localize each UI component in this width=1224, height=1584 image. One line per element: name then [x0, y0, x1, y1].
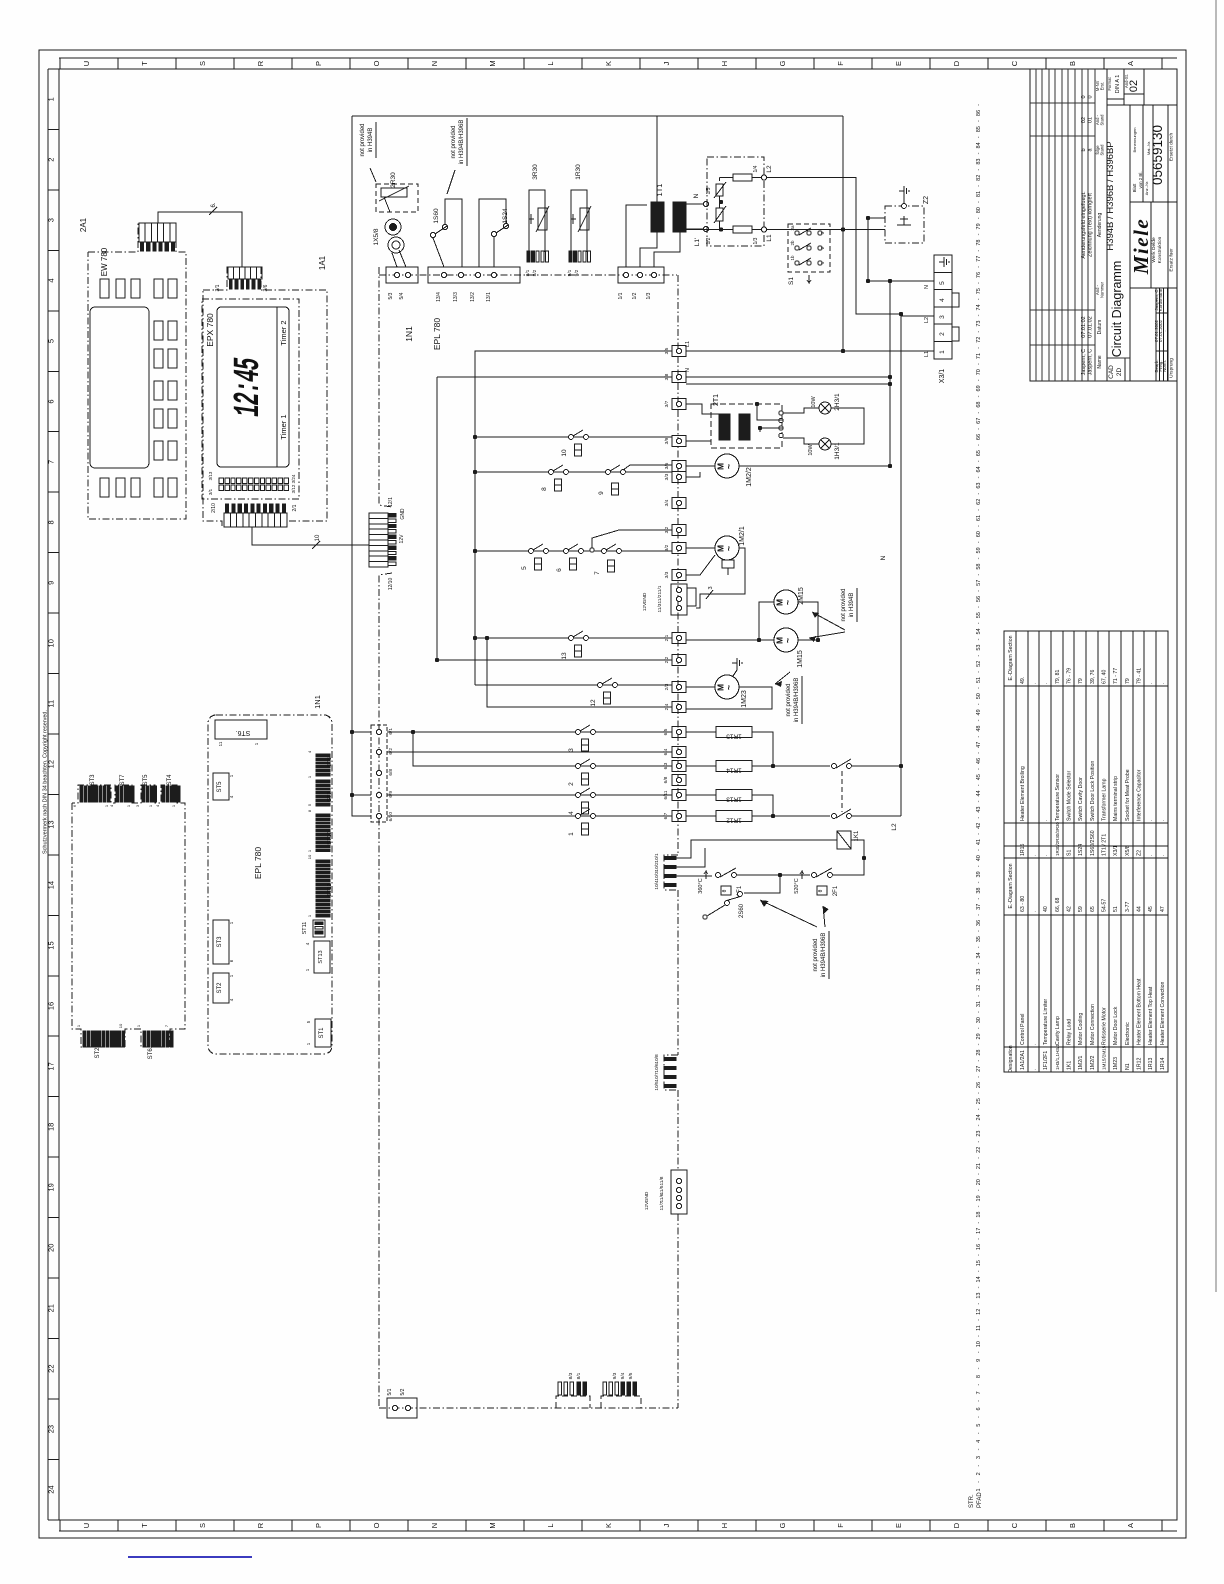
svg-text:12: 12: [976, 1309, 982, 1315]
sensor 1R30 temperature: [571, 164, 591, 252]
svg-text:~: ~: [783, 600, 793, 605]
svg-text:1S24: 1S24: [1078, 844, 1084, 856]
svg-text:55: 55: [976, 612, 982, 618]
svg-text:Control Panel: Control Panel: [1020, 1014, 1026, 1045]
terminal block 5/1 5/2: [387, 1388, 417, 1418]
terminal chain 2/x: [664, 633, 686, 713]
svg-text:Stand: Stand: [1100, 114, 1105, 126]
wire 1/3 to 1T1 secondary: [654, 232, 680, 267]
svg-text:N: N: [693, 193, 700, 198]
svg-text:9/2: 9/2: [574, 269, 580, 276]
wire slash mark /6: [209, 202, 217, 215]
svg-text:Heater Element Broiling: Heater Element Broiling: [1020, 766, 1026, 821]
svg-text:H394B / H396B / H396BP: H394B / H396B / H396BP: [1105, 141, 1116, 250]
svg-text:-: -: [976, 266, 982, 268]
svg-text:70: 70: [976, 369, 982, 375]
svg-text:1R14: 1R14: [726, 767, 742, 774]
svg-text:10/3: 10/3: [654, 871, 660, 881]
svg-text:52: 52: [976, 661, 982, 667]
svg-text:-: -: [976, 914, 982, 916]
svg-text:-: -: [976, 1092, 982, 1094]
svg-text:5: 5: [521, 566, 528, 570]
svg-text:L: L: [546, 61, 555, 65]
main board bottom edge: [379, 1407, 678, 1409]
svg-text:L1: L1: [924, 351, 930, 357]
svg-text:2A1: 2A1: [79, 217, 88, 232]
svg-text:Rotisserie Motor: Rotisserie Motor: [1102, 1007, 1108, 1045]
svg-text:12V: 12V: [399, 534, 405, 544]
svg-text:3: 3: [708, 586, 714, 589]
svg-text:11/6: 11/6: [659, 1193, 665, 1202]
svg-text:H: H: [720, 1523, 729, 1528]
title block format strip: [1107, 69, 1177, 381]
connector ST1 box: [306, 1019, 331, 1047]
svg-text:-: -: [976, 233, 982, 235]
fuse to L2: [723, 165, 773, 181]
svg-text:-: -: [976, 1076, 982, 1078]
svg-text:ST11: ST11: [302, 922, 308, 935]
svg-text:.: .: [1148, 683, 1154, 684]
svg-text:3/13: 3/13: [208, 471, 213, 480]
svg-text:1N1: 1N1: [313, 695, 322, 709]
svg-text:11/1: 11/1: [657, 585, 663, 594]
svg-text:1K1: 1K1: [1067, 1061, 1073, 1070]
switch 1S24 cavity door: [479, 199, 509, 267]
svg-text:~: ~: [783, 638, 793, 643]
connector ST13 box: [305, 941, 330, 973]
svg-text:-: -: [976, 865, 982, 867]
motor 1M2/2 cooling: [715, 454, 753, 487]
svg-text:.: .: [1032, 855, 1038, 856]
svg-text:-: -: [976, 638, 982, 640]
svg-text:59: 59: [1078, 906, 1084, 912]
svg-text:Cavity Lamp: Cavity Lamp: [1055, 1016, 1061, 1045]
svg-text:in H394B: in H394B: [849, 593, 855, 618]
svg-text:~: ~: [724, 546, 734, 551]
svg-text:-: -: [976, 1303, 982, 1305]
relay contact 1K1 upper: [832, 759, 904, 768]
main board right edge: [677, 275, 679, 1408]
board comb 9/1 9/2: [567, 251, 590, 276]
svg-text:35: 35: [976, 936, 982, 942]
svg-text:-: -: [976, 314, 982, 316]
svg-text:2/3: 2/3: [664, 683, 670, 690]
svg-text:24: 24: [47, 1485, 56, 1493]
bottom comb 8/x: [556, 1372, 590, 1408]
title block Mat number: [1146, 125, 1165, 185]
svg-text:49: 49: [976, 709, 982, 715]
svg-text:41: 41: [976, 839, 982, 845]
svg-text:-: -: [976, 1060, 982, 1062]
svg-text:01: 01: [1088, 117, 1094, 123]
svg-text:-: -: [976, 1270, 982, 1272]
motor 1M23 door lock: [715, 675, 748, 708]
comb ST5b: [135, 774, 156, 807]
node L2 join: [899, 312, 903, 316]
svg-text:1R12: 1R12: [726, 817, 742, 824]
svg-text:10/5: 10/5: [654, 1081, 660, 1091]
svg-text:.: .: [1160, 683, 1166, 684]
svg-text:40: 40: [1043, 906, 1049, 912]
svg-text:.: .: [1043, 820, 1049, 821]
svg-text:1A1/2A1: 1A1/2A1: [1020, 1050, 1026, 1070]
svg-text:-: -: [976, 525, 982, 527]
svg-text:4: 4: [568, 811, 575, 815]
svg-text:1R14: 1R14: [1160, 1057, 1166, 1070]
svg-text:54-57: 54-57: [1102, 899, 1108, 912]
svg-text:-: -: [976, 768, 982, 770]
svg-text:9/1: 9/1: [567, 269, 573, 276]
svg-text:12V: 12V: [644, 1201, 650, 1210]
svg-text:3/7: 3/7: [664, 400, 670, 407]
svg-text:not provided: not provided: [360, 123, 366, 156]
svg-text:62: 62: [976, 499, 982, 505]
svg-text:47: 47: [1160, 906, 1166, 912]
svg-text:2: 2: [939, 332, 946, 336]
mains terminal strip X3/1: [924, 255, 959, 383]
node N to down: [888, 279, 892, 283]
svg-text:Aenderung: Aenderung: [1097, 213, 1103, 238]
svg-text:2: 2: [47, 158, 56, 162]
svg-text:.: .: [1043, 855, 1049, 856]
wire 3/2 to 1M2/1: [686, 547, 715, 549]
svg-text:21: 21: [976, 1163, 982, 1169]
svg-text:6/8: 6/8: [663, 776, 669, 783]
svg-text:29: 29: [976, 1033, 982, 1039]
svg-text:37: 37: [976, 904, 982, 910]
svg-text:6/1: 6/1: [388, 728, 394, 735]
svg-text:-: -: [976, 444, 982, 446]
svg-text:-: -: [976, 476, 982, 478]
svg-text:Timer 2: Timer 2: [279, 320, 288, 345]
svg-text:J: J: [662, 61, 671, 65]
display separator: [276, 307, 278, 467]
svg-text:.: .: [1032, 683, 1038, 684]
svg-text:1T1: 1T1: [655, 184, 664, 197]
wire X3/1 pin5 N left: [868, 280, 934, 282]
title block dividers bottom part: [1130, 105, 1177, 381]
svg-text:19: 19: [976, 1195, 982, 1201]
svg-text:-: -: [976, 849, 982, 851]
svg-text:STR.: STR.: [969, 1494, 975, 1508]
svg-text:~: ~: [724, 685, 734, 690]
svg-text:Miele: Miele: [1129, 218, 1153, 275]
svg-text:GND: GND: [644, 1191, 650, 1202]
svg-text:-: -: [976, 185, 982, 187]
svg-text:Stand: Stand: [1100, 144, 1105, 156]
svg-text:Heater Element Convection: Heater Element Convection: [1160, 981, 1166, 1045]
terminal block 1/1 1/2 1/3: [618, 267, 664, 299]
svg-text:79 - 41: 79 - 41: [1137, 668, 1143, 684]
svg-text:1T1 / 2T1: 1T1 / 2T1: [1102, 834, 1108, 856]
svg-text:-: -: [976, 136, 982, 138]
svg-text:1R15: 1R15: [1020, 843, 1026, 856]
svg-text:Designation: Designation: [1008, 1045, 1014, 1073]
svg-text:-: -: [976, 509, 982, 511]
svg-text:Interference Capacitor: Interference Capacitor: [1137, 769, 1143, 821]
svg-text:9: 9: [976, 1359, 982, 1362]
svg-text:N1: N1: [1125, 1063, 1131, 1070]
transformer 2T1: [711, 394, 783, 448]
svg-text:Jaspern, C: Jaspern, C: [1088, 349, 1094, 376]
svg-text:G: G: [778, 1522, 787, 1528]
svg-text:CAD: CAD: [1108, 365, 1115, 379]
wire rotisserie loop: [686, 602, 820, 642]
svg-text:EW 780: EW 780: [100, 247, 109, 276]
svg-text:Jaspern, C: Jaspern, C: [1081, 349, 1087, 376]
svg-text:34: 34: [976, 952, 982, 958]
svg-text:M: M: [488, 1522, 497, 1528]
svg-text:-: -: [976, 1319, 982, 1321]
svg-text:1M23: 1M23: [741, 690, 748, 708]
svg-text:44: 44: [976, 790, 982, 796]
svg-text:3/5: 3/5: [664, 462, 670, 469]
svg-text:-: -: [976, 1222, 982, 1224]
svg-text:.: .: [1162, 330, 1167, 331]
svg-text:-: -: [976, 719, 982, 721]
svg-text:Datum: Datum: [1097, 320, 1103, 335]
terminal block 13/4-13/1: [428, 267, 520, 302]
svg-text:43: 43: [976, 807, 982, 813]
svg-text:360°C: 360°C: [698, 878, 704, 893]
varistor lower: [714, 200, 726, 229]
title block frame: [1030, 69, 1177, 381]
svg-text:-: -: [976, 1384, 982, 1386]
svg-text:79: 79: [1125, 678, 1131, 684]
svg-text:P: P: [314, 61, 323, 66]
svg-text:6: 6: [47, 399, 56, 403]
wire 1/1 to 1T1: [626, 205, 647, 267]
svg-text:.: .: [1032, 1044, 1038, 1045]
svg-text:N: N: [880, 555, 887, 560]
svg-text:-: -: [976, 428, 982, 430]
svg-text:16: 16: [47, 1002, 56, 1010]
svg-text:1H3/1: 1H3/1: [834, 442, 841, 460]
svg-text:3/6: 3/6: [263, 284, 269, 291]
svg-text:PFAD: PFAD: [977, 1492, 983, 1508]
svg-text:11: 11: [976, 1325, 982, 1331]
node bus to 6/1: [350, 730, 354, 734]
svg-text:1/5: 1/5: [706, 187, 712, 194]
svg-text:2/1: 2/1: [292, 504, 298, 511]
svg-text:4: 4: [939, 298, 946, 302]
svg-text:.: .: [1160, 820, 1166, 821]
wire 6/1 to bus: [352, 731, 371, 733]
svg-text:-: -: [976, 1141, 982, 1143]
svg-text:13/4: 13/4: [436, 292, 442, 302]
wire 3/9 to 2T1: [686, 440, 711, 442]
svg-text:61: 61: [976, 515, 982, 521]
switch 2S60: [703, 875, 780, 919]
relay coil 1K1: [837, 830, 860, 849]
svg-text:58: 58: [976, 564, 982, 570]
svg-text:1R13: 1R13: [1148, 1057, 1154, 1070]
svg-text:6/2: 6/2: [388, 748, 394, 755]
mode selector switch S1: [788, 224, 830, 285]
control board 2A1 EW 780 outline: [88, 223, 186, 519]
svg-text:33: 33: [976, 969, 982, 975]
svg-text:7: 7: [976, 1391, 982, 1394]
wire EW780 comb to EPX780: [158, 212, 242, 267]
svg-text:13/3: 13/3: [453, 292, 459, 302]
ladder feed bus X437: [435, 377, 672, 662]
svg-text:ST12: ST12: [327, 883, 333, 896]
ground 1M23: [732, 658, 742, 676]
svg-text:-: -: [976, 1400, 982, 1402]
svg-text:13: 13: [561, 652, 568, 660]
svg-text:31: 31: [976, 1001, 982, 1007]
node Z2 branch: [866, 279, 870, 283]
svg-text:-: -: [976, 1157, 982, 1159]
svg-text:ST8: ST8: [327, 757, 333, 767]
svg-text:4: 4: [976, 1440, 982, 1443]
ruler band left (numbers 1-24): [47, 69, 49, 1520]
wire 3/3b diag to motor: [686, 555, 715, 575]
svg-text:23: 23: [47, 1425, 56, 1433]
svg-text:63 - 80: 63 - 80: [1020, 896, 1026, 912]
svg-text:48: 48: [976, 726, 982, 732]
svg-text:N: N: [924, 285, 930, 289]
svg-text:-: -: [976, 590, 982, 592]
svg-text:3/2: 3/2: [664, 544, 670, 551]
svg-text:6.: 6.: [211, 202, 217, 207]
lamp 1H3/1: [808, 438, 841, 460]
wire 10/2 loop: [676, 848, 705, 867]
svg-text:19: 19: [47, 1183, 56, 1191]
svg-text:15: 15: [47, 941, 56, 949]
svg-text:1A1: 1A1: [318, 255, 327, 270]
svg-text:Z2: Z2: [1137, 850, 1143, 856]
svg-text:18: 18: [47, 1123, 56, 1131]
svg-text:3: 3: [976, 1456, 982, 1459]
svg-text:H: H: [720, 61, 729, 66]
lamp 2H3/1: [811, 393, 841, 414]
wire 1T1 primary bottom to 1/2: [640, 232, 657, 267]
svg-text:-: -: [976, 120, 982, 122]
transformer 1T1: [651, 184, 686, 232]
svg-text:.: .: [1032, 1069, 1038, 1070]
wire 1M2/1 return via /3: [696, 548, 745, 608]
svg-text:L2: L2: [924, 317, 930, 323]
svg-text:16: 16: [976, 1244, 982, 1250]
svg-text:1/1: 1/1: [618, 292, 624, 299]
svg-text:47: 47: [976, 742, 982, 748]
svg-text:J: J: [662, 1523, 671, 1527]
svg-text:49.: 49.: [1020, 677, 1026, 684]
svg-text:2R30: 2R30: [390, 172, 397, 188]
svg-text:K: K: [604, 1523, 613, 1528]
comb ST6b: [136, 1024, 173, 1059]
svg-text:11: 11: [218, 741, 223, 746]
svg-text:-: -: [976, 1432, 982, 1434]
svg-text:3/4: 3/4: [664, 499, 670, 506]
svg-text:Schutzvermerk nach DIN 34 beac: Schutzvermerk nach DIN 34 beachten. Copy…: [43, 710, 49, 854]
svg-text:78: 78: [976, 240, 982, 246]
sensor 2R30 (not provided note): [376, 172, 418, 212]
rung with switches 8 and 9: [475, 465, 672, 495]
svg-text:-: -: [976, 833, 982, 835]
svg-text:5: 5: [47, 339, 56, 343]
rung with switch 12: [475, 678, 672, 707]
EW 780 buttons top row: [100, 279, 177, 298]
display window: [217, 307, 289, 467]
indicator square matrix: [208, 471, 296, 495]
svg-text:-: -: [976, 541, 982, 543]
svg-text:L2: L2: [766, 165, 773, 173]
svg-text:Socket for Meat Probe: Socket for Meat Probe: [1125, 769, 1131, 821]
svg-text:Transformer Lamp: Transformer Lamp: [1102, 778, 1108, 821]
switch 1S60 door lock position: [430, 199, 462, 267]
wire Z2 to N: [866, 216, 885, 281]
node N join: [888, 375, 892, 379]
wire slash mark /10: [312, 534, 321, 549]
svg-text:24: 24: [976, 1114, 982, 1120]
path number ruler (PFAD 1-86): [969, 104, 983, 1508]
svg-text:Temperature Sensor: Temperature Sensor: [1055, 774, 1061, 821]
svg-text:56: 56: [976, 596, 982, 602]
connector ST2 box: [213, 973, 234, 1003]
svg-text:-: -: [976, 962, 982, 964]
note not provided in H394B/H396B (1S60): [447, 118, 467, 194]
svg-text:-: -: [976, 298, 982, 300]
svg-text:U: U: [82, 1523, 91, 1528]
svg-text:-: -: [976, 979, 982, 981]
svg-text:-: -: [976, 395, 982, 397]
svg-text:-: -: [976, 557, 982, 559]
svg-text:E.-Diagram Section: E.-Diagram Section: [1008, 635, 1014, 680]
svg-text:2S60: 2S60: [739, 903, 745, 918]
heater 1R13 top heat: [716, 790, 752, 803]
svg-text:L: L: [546, 1523, 555, 1527]
svg-text:.: .: [1043, 683, 1049, 684]
svg-text:A: A: [1126, 61, 1135, 66]
svg-text:S: S: [198, 1523, 207, 1528]
svg-text:-: -: [976, 946, 982, 948]
svg-text:X3/1: X3/1: [1113, 845, 1119, 856]
svg-text:Relay Load: Relay Load: [1067, 1019, 1073, 1045]
board comb 8/1 8/2: [525, 251, 548, 276]
svg-text:5: 5: [939, 281, 946, 285]
svg-text:Blatt: Blatt: [1132, 183, 1137, 193]
svg-text:B: B: [1068, 61, 1077, 66]
svg-text:1X5/8: 1X5/8: [373, 228, 380, 245]
svg-text:13/1: 13/1: [486, 292, 492, 302]
wire 3/7 to 2T1: [686, 404, 719, 414]
svg-text:51: 51: [976, 677, 982, 683]
thermal cutout 2F1 520C: [780, 858, 864, 896]
svg-text:ST2: ST2: [217, 982, 223, 994]
svg-text:3/3: 3/3: [664, 571, 670, 578]
svg-text:Erst.: Erst.: [1100, 82, 1105, 91]
svg-text:GND: GND: [400, 508, 406, 520]
EW 780 connector comb: [139, 223, 176, 251]
svg-text:-: -: [976, 282, 982, 284]
svg-text:10: 10: [561, 449, 568, 457]
svg-text:1S60/2S60: 1S60/2S60: [1090, 830, 1096, 856]
svg-text:1: 1: [568, 832, 575, 836]
svg-text:9: 9: [598, 491, 605, 495]
svg-text:Name: Name: [1097, 355, 1103, 369]
svg-text:71: 71: [976, 353, 982, 359]
motor 2M15 rotisserie: [774, 587, 805, 614]
meat probe socket 1X5/8: [373, 219, 406, 267]
wire L2 fuse to L2 line: [766, 178, 901, 315]
svg-text:8/1: 8/1: [576, 1372, 582, 1379]
svg-text:10/2: 10/2: [654, 862, 660, 872]
svg-text:-: -: [976, 1238, 982, 1240]
wire L2 vertical: [900, 314, 902, 816]
note not provided in H394B (2R30): [360, 122, 376, 182]
